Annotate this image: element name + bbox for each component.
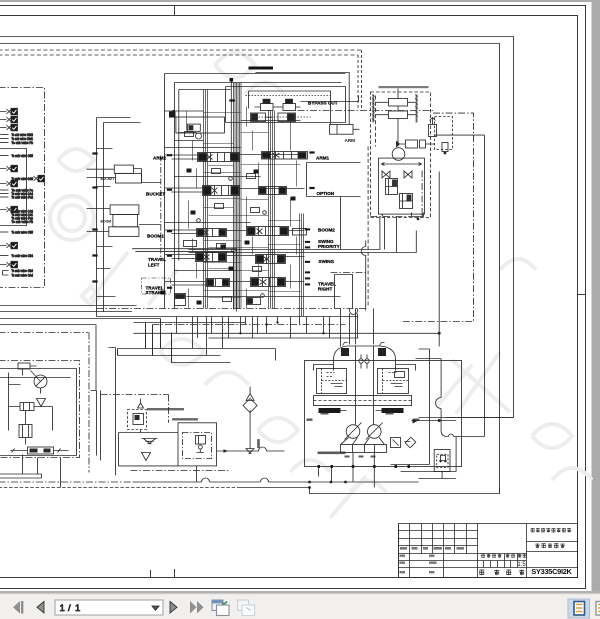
stage mark / weight / scale: [481, 554, 526, 558]
first-page button: [13, 601, 23, 614]
svg-text:OPTION: OPTION: [317, 191, 335, 196]
bypass solenoids: [255, 99, 279, 110]
arm regen valve: [251, 113, 273, 122]
wire: pilot dashed right drop: [358, 50, 362, 110]
bottom rails: [97, 308, 369, 310]
top plug: [230, 80, 232, 161]
TRAVEL LEFT spool: [196, 253, 227, 262]
valves inside: [386, 179, 398, 195]
filter unit right: [401, 450, 457, 479]
dash-dot rail x160: [160, 156, 162, 259]
left grid columns: [399, 524, 527, 578]
prev button: [37, 602, 44, 614]
inner solid box: [0, 149, 27, 226]
swing motor circle: [392, 148, 405, 161]
travel right sub box: [335, 275, 353, 309]
svg-text:RIGHT: RIGHT: [318, 287, 332, 292]
solenoid blocks: [341, 348, 349, 356]
SWING spool: [256, 255, 286, 264]
OPTION spool: [259, 187, 287, 195]
wire: left bus lines: [0, 306, 161, 391]
wire: left dash-dot bus: [0, 332, 89, 334]
check orifice pair: [359, 359, 363, 363]
label smudge 2: [172, 418, 198, 420]
check bowties: [382, 171, 412, 178]
header row smudges: [400, 547, 465, 573]
linkage: [341, 438, 385, 445]
misc small valves in block: [175, 294, 186, 306]
big ring upper-left: [50, 196, 94, 240]
BOOM2 spool: [247, 227, 307, 236]
wire: bus y348: [118, 349, 276, 361]
svg-text:To sub valve OB5: To sub valve OB5: [12, 230, 34, 234]
svg-text:SY335C9I2K: SY335C9I2K: [531, 567, 572, 576]
label smudge: [147, 408, 184, 410]
共 张 第 张 row: [479, 570, 524, 575]
svg-text:To sub valve OBd: To sub valve OBd: [12, 269, 34, 273]
check item: [442, 143, 448, 152]
wire: x441 jump arc: [436, 398, 442, 409]
bucket spool: [203, 186, 240, 196]
svg-text:BOOM: BOOM: [101, 220, 112, 224]
wire: bottom dashed line: [0, 487, 241, 489]
arrows line: [382, 163, 422, 166]
middle cells: [478, 524, 527, 578]
regulator right: [378, 369, 409, 394]
gear pump small: [18, 363, 30, 369]
S curves mid-left: [160, 339, 249, 385]
svg-text:To sub valve Pb: To sub valve Pb: [12, 141, 34, 145]
wire: arm feed from top: [256, 73, 350, 125]
svg-text:BOOM1: BOOM1: [147, 234, 164, 239]
bypass relief assembly: [138, 403, 144, 408]
small dark pilot caps scattered: [161, 112, 296, 305]
cone: [37, 399, 46, 407]
label swing device: [379, 86, 429, 88]
wire: y417 pump link: [419, 417, 514, 419]
ARM1 spool: [262, 152, 308, 160]
torque block: [341, 445, 387, 453]
bucket cylinder: [87, 165, 161, 183]
port label smudges: [307, 413, 420, 458]
boom cylinder: [87, 205, 161, 237]
svg-text:To sub valve OB5: To sub valve OB5: [12, 154, 34, 158]
toolbar strip: [0, 595, 600, 619]
wire: down: [196, 466, 198, 482]
wire: pump feeds: [356, 346, 374, 425]
svg-text:BUCKET: BUCKET: [101, 177, 116, 181]
wire: jump arc on x365: [361, 241, 366, 311]
outer box lines: [165, 74, 346, 309]
svg-text:BOOM2: BOOM2: [318, 228, 335, 233]
wire: mid bus v-drops: [146, 319, 172, 363]
wire: swing enclosure dash-dot: [401, 113, 474, 321]
svg-text:To sub valve OB4: To sub valve OB4: [12, 254, 34, 258]
svg-text:/: /: [68, 603, 71, 614]
junction dots bottom: [308, 481, 311, 484]
tank box: [119, 433, 179, 466]
gear hatch left: [372, 95, 374, 123]
wire: bypass dash-dot: [298, 110, 434, 112]
svg-text:1: 1: [60, 603, 65, 614]
dashed sub box right: [435, 117, 453, 150]
curls upper area: [215, 53, 285, 96]
centering ticks: [151, 6, 586, 578]
left rail: [97, 118, 141, 317]
servo band: [314, 396, 412, 406]
bottom drops into pump area: [177, 309, 374, 356]
svg-text:To sub valve OAd: To sub valve OAd: [12, 273, 34, 277]
curls right: [532, 424, 592, 480]
boom regen valve: [176, 117, 225, 139]
level mark: [142, 439, 158, 444]
last-page button: [190, 601, 204, 614]
new-window icon (enabled): [212, 600, 229, 616]
svg-text:1: 1: [75, 603, 80, 614]
extra left horizontals: [165, 111, 204, 141]
To-sub-valve text rows: [0, 133, 34, 277]
wire: y332.8 connector: [134, 333, 440, 338]
manifold: [28, 447, 54, 454]
right column: [527, 542, 578, 568]
wire: swing priority pair: [189, 216, 417, 253]
label main pump: [318, 452, 346, 455]
curve bumps bottom: [350, 309, 358, 315]
thick port bar top: [249, 67, 274, 70]
svg-text:TRAVEL: TRAVEL: [148, 257, 166, 262]
check valve column: [246, 387, 254, 401]
external symbol at notch: [27, 175, 45, 182]
bottom tank mark: [246, 449, 255, 454]
travel straight spool: [207, 279, 230, 287]
pump housing curved top: [334, 346, 396, 371]
swing valve box: [379, 158, 425, 214]
dashed housing: [371, 92, 431, 218]
pump circle L: [346, 425, 360, 439]
relief fan: [20, 403, 34, 411]
wire: bypass piping: [301, 96, 359, 111]
wires inside: [9, 373, 53, 431]
dash-dot enclosure: [0, 361, 80, 458]
sidebar toggle 2 (cut off): [596, 602, 600, 616]
interior stubs and ticks: [187, 107, 301, 309]
label TRAVEL STRAIGHT boxed: [142, 278, 171, 295]
wire: arm rod line: [330, 111, 332, 125]
svg-text:PRIORITY: PRIORITY: [318, 244, 340, 249]
svg-text:BUCKET: BUCKET: [146, 191, 165, 196]
make-up valve: [406, 140, 418, 148]
pilot filter unit: [178, 423, 217, 466]
svg-text:To sub valve Pb: To sub valve Pb: [12, 220, 34, 224]
X lower-right: [452, 352, 510, 414]
TRAVEL RIGHT spool: [251, 278, 286, 287]
outer box: [305, 361, 462, 467]
arm cylinder: [330, 125, 354, 135]
junction dot: [438, 332, 441, 335]
relief + check right: [391, 438, 401, 448]
drawing title (5 CJK glyph blocks): [535, 543, 564, 548]
wire: drops below box: [319, 453, 375, 488]
next button: [170, 602, 177, 614]
drain triangle: [142, 453, 151, 461]
pilot line bundles: [204, 83, 304, 317]
svg-text:ARM: ARM: [345, 138, 356, 143]
enclosure dash-dot box: [0, 88, 45, 288]
wire: y493 left hook: [499, 489, 501, 494]
curls center-bottom: [258, 418, 330, 472]
page combo box: [55, 600, 163, 615]
svg-text:ARM2: ARM2: [153, 155, 166, 160]
bottom ports: [318, 465, 411, 468]
upper nested boxes: [226, 87, 346, 123]
port ticks right rail: [230, 100, 315, 286]
dash-dot link: [101, 395, 169, 423]
svg-text:SWING: SWING: [319, 259, 335, 264]
crossover relief valves: [389, 99, 408, 107]
wire: top pilot dashed 1: [0, 49, 362, 51]
inner box: [0, 369, 77, 456]
gear hatch right: [416, 95, 418, 123]
servo actuator bars: [319, 408, 404, 413]
wire: bottom dash-dot long: [0, 481, 133, 483]
right boundary verticals: [88, 333, 90, 473]
svg-text:1:5: 1:5: [517, 562, 526, 568]
wire: top bus 2: [0, 44, 500, 494]
row feed lines: [97, 149, 305, 297]
wire: out right: [217, 447, 285, 451]
wire: y420.5 regulator line: [412, 420, 457, 422]
wire: top bus 1: [0, 37, 514, 418]
BOOM1 spool: [197, 229, 227, 237]
wire: swing out line: [435, 134, 485, 136]
valve 2: [19, 425, 32, 438]
svg-text:To sub valve Pa2: To sub valve Pa2: [12, 195, 34, 199]
tiny components sprinkled: [185, 132, 267, 302]
ARM2 spool: [198, 153, 240, 162]
bottom box double line: [0, 474, 42, 478]
wire: x441 with jump: [416, 359, 457, 472]
wire: right long vertical B: [456, 135, 484, 436]
svg-text:STRAIG: STRAIG: [146, 290, 164, 295]
port symbol rows: [0, 108, 45, 267]
sidebar toggle (active): [568, 599, 590, 618]
wire: box bottom drops: [385, 217, 397, 253]
diagonal bar + diamond: [90, 252, 128, 300]
wire: bottom solid continuation: [133, 478, 419, 482]
wire: right long vertical A: [438, 172, 440, 347]
wire: x429 drain: [391, 349, 430, 465]
new-window icon (disabled): [238, 600, 255, 616]
wire: dash-dot y470: [131, 470, 231, 472]
bypass dashed pilots: [246, 95, 331, 97]
fan motor: [34, 375, 47, 388]
port ticks left rail: [93, 153, 173, 289]
svg-text:ARM1: ARM1: [316, 156, 329, 161]
svg-text:LEFT: LEFT: [148, 262, 160, 267]
regulator left: [317, 369, 347, 394]
travel enclosure box: [132, 249, 236, 312]
company name (8 CJK glyph blocks): [531, 528, 571, 532]
wire: bottom solid to junction: [241, 487, 310, 489]
wire: dash-dot bottom boundary: [371, 216, 412, 218]
pilot relief: [429, 125, 437, 137]
svg-text:To sub valve OA5: To sub valve OA5: [12, 177, 34, 181]
wire: top pilot dashed 2: [0, 54, 358, 56]
pump circle R: [368, 425, 382, 439]
internal h-lines: [165, 121, 341, 297]
right dashed edge: [367, 147, 369, 308]
